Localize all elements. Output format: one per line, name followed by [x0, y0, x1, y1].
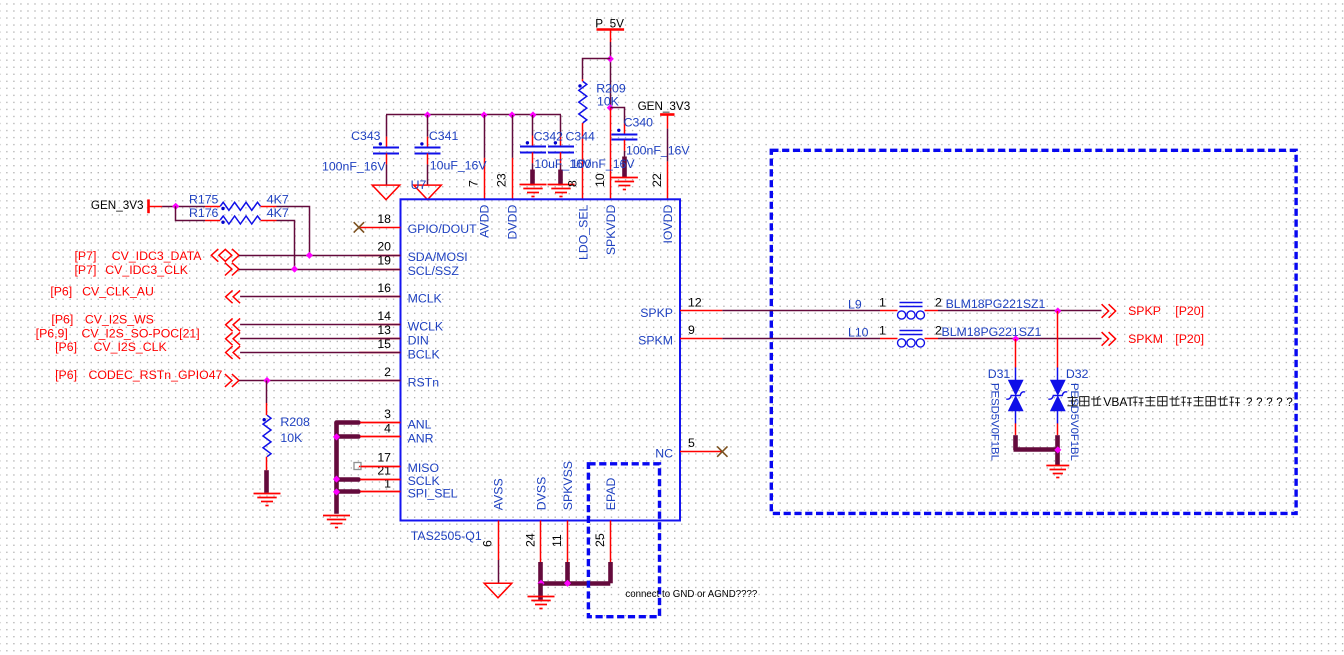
svg-text:R176: R176 — [189, 206, 219, 220]
svg-text:1: 1 — [879, 323, 886, 337]
svg-text:100nF_16V: 100nF_16V — [322, 160, 386, 174]
svg-text:[P6]: [P6] — [51, 313, 73, 327]
svg-text:CV_IDC3_CLK: CV_IDC3_CLK — [105, 263, 188, 277]
svg-text:GEN_3V3: GEN_3V3 — [91, 199, 144, 212]
svg-text:LDO_SEL: LDO_SEL — [577, 204, 591, 260]
svg-text:D31: D31 — [988, 367, 1011, 381]
svg-text:24: 24 — [524, 533, 538, 547]
svg-text:13: 13 — [377, 323, 391, 337]
svg-text:C343: C343 — [351, 129, 381, 143]
svg-text:9: 9 — [688, 323, 695, 337]
svg-text:[P20]: [P20] — [1175, 332, 1204, 346]
svg-text:U7: U7 — [411, 178, 427, 192]
svg-text:[P7]: [P7] — [75, 249, 97, 263]
svg-text:MCLK: MCLK — [408, 292, 443, 306]
svg-text:[P6,9]: [P6,9] — [36, 326, 68, 340]
svg-text:R208: R208 — [280, 415, 310, 429]
svg-text:CV_CLK_AU: CV_CLK_AU — [82, 285, 154, 299]
svg-text:C342: C342 — [534, 129, 564, 143]
svg-text:DVSS: DVSS — [535, 477, 549, 511]
svg-text:C340: C340 — [624, 115, 654, 129]
svg-text:12: 12 — [688, 295, 702, 309]
svg-text:100nF_16V: 100nF_16V — [571, 157, 635, 171]
svg-text:1: 1 — [879, 296, 886, 310]
svg-text:SPKVDD: SPKVDD — [604, 204, 618, 255]
svg-text:20: 20 — [377, 240, 391, 254]
svg-text:VBAT: VBAT — [1103, 395, 1134, 409]
svg-text:23: 23 — [495, 173, 509, 187]
svg-text:GEN_3V3: GEN_3V3 — [638, 100, 691, 113]
svg-text:PESD5V0F1BL: PESD5V0F1BL — [1068, 383, 1080, 461]
svg-text:NC: NC — [655, 446, 673, 460]
svg-text:CV_IDC3_DATA: CV_IDC3_DATA — [112, 249, 203, 263]
svg-text:?: ? — [1276, 397, 1282, 409]
svg-text:17: 17 — [377, 451, 391, 465]
svg-text:4K7: 4K7 — [267, 193, 289, 207]
svg-text:10K: 10K — [597, 94, 620, 108]
svg-text:25: 25 — [593, 533, 607, 547]
svg-text:CV_I2S_SO-POC[21]: CV_I2S_SO-POC[21] — [81, 326, 199, 340]
svg-text:WCLK: WCLK — [408, 320, 444, 334]
svg-text:4K7: 4K7 — [267, 206, 289, 220]
svg-text:CV_I2S_WS: CV_I2S_WS — [85, 313, 154, 327]
svg-text:10uF_16V: 10uF_16V — [430, 158, 488, 172]
svg-text:10K: 10K — [280, 431, 303, 445]
svg-text:L9: L9 — [848, 298, 862, 312]
svg-text:16: 16 — [377, 281, 391, 295]
svg-text:R175: R175 — [189, 193, 219, 207]
svg-text:BLM18PG221SZ1: BLM18PG221SZ1 — [942, 325, 1042, 339]
svg-text:SPI_SEL: SPI_SEL — [408, 487, 458, 501]
svg-text:22: 22 — [650, 173, 664, 187]
svg-text:100nF_16V: 100nF_16V — [626, 143, 690, 157]
svg-text:CODEC_RSTn_GPIO47: CODEC_RSTn_GPIO47 — [88, 368, 222, 382]
svg-text:14: 14 — [377, 309, 391, 323]
svg-text:DIN: DIN — [408, 334, 429, 348]
svg-text:7: 7 — [467, 180, 481, 187]
svg-text:SPKM: SPKM — [638, 334, 673, 348]
svg-text:SPKVSS: SPKVSS — [561, 461, 575, 510]
svg-text:L10: L10 — [848, 325, 869, 339]
svg-text:[P6]: [P6] — [55, 368, 77, 382]
svg-text:AVDD: AVDD — [478, 204, 492, 237]
svg-text:connect to GND or AGND????: connect to GND or AGND???? — [625, 589, 758, 600]
svg-text:?: ? — [1246, 397, 1252, 409]
svg-text:GPIO/DOUT: GPIO/DOUT — [408, 222, 477, 236]
svg-text:SCL/SSZ: SCL/SSZ — [408, 264, 460, 278]
svg-text:5: 5 — [688, 436, 695, 450]
svg-text:6: 6 — [481, 540, 495, 547]
svg-text:ANR: ANR — [408, 432, 434, 446]
svg-text:EPAD: EPAD — [604, 478, 618, 511]
svg-text:SPKP: SPKP — [640, 306, 673, 320]
svg-text:2: 2 — [935, 296, 942, 310]
svg-text:1: 1 — [384, 476, 391, 490]
svg-text:AVSS: AVSS — [492, 478, 506, 510]
svg-text:C341: C341 — [429, 129, 459, 143]
svg-text:?: ? — [1266, 397, 1272, 409]
svg-text:18: 18 — [377, 212, 391, 226]
svg-text:11: 11 — [550, 534, 564, 547]
svg-text:10: 10 — [593, 173, 607, 187]
svg-text:PESD5V0F1BL: PESD5V0F1BL — [989, 383, 1001, 461]
svg-text:BCLK: BCLK — [408, 347, 441, 361]
svg-text:[P6]: [P6] — [50, 285, 72, 299]
svg-text:[P6]: [P6] — [55, 340, 77, 354]
svg-text:DVDD: DVDD — [506, 204, 520, 239]
svg-text:SPKP: SPKP — [1128, 304, 1161, 318]
svg-text:ANL: ANL — [408, 418, 432, 432]
svg-text:[P20]: [P20] — [1175, 304, 1204, 318]
svg-text:SDA/MOSI: SDA/MOSI — [408, 250, 468, 264]
svg-text:BLM18PG221SZ1: BLM18PG221SZ1 — [946, 297, 1046, 311]
svg-text:TAS2505-Q1: TAS2505-Q1 — [411, 529, 482, 543]
svg-text:?: ? — [1256, 397, 1262, 409]
svg-text:MISO: MISO — [408, 461, 439, 475]
svg-text:SPKM: SPKM — [1128, 332, 1163, 346]
svg-text:D32: D32 — [1066, 367, 1089, 381]
svg-text:C344: C344 — [566, 129, 596, 143]
svg-text:2: 2 — [384, 365, 391, 379]
svg-text:[P7]: [P7] — [75, 263, 97, 277]
svg-text:RSTn: RSTn — [408, 375, 440, 389]
svg-text:4: 4 — [384, 421, 391, 435]
svg-text:IOVDD: IOVDD — [661, 204, 675, 243]
svg-text:?: ? — [1286, 397, 1292, 409]
svg-text:8: 8 — [566, 180, 580, 187]
svg-text:CV_I2S_CLK: CV_I2S_CLK — [94, 340, 168, 354]
svg-text:3: 3 — [384, 407, 391, 421]
